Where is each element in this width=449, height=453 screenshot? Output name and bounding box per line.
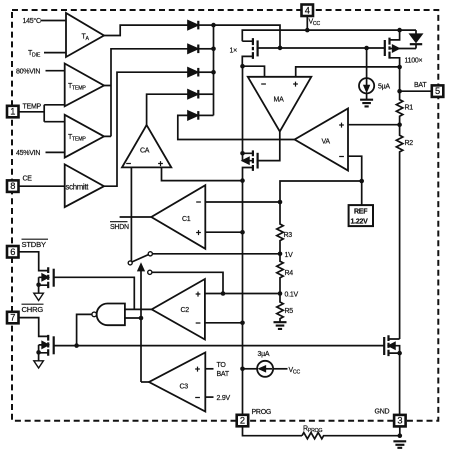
transistor Q3 small PMOS [252, 150, 254, 171]
svg-text:SHDN: SHDN [110, 224, 129, 231]
wire bus to gate node [214, 25, 281, 48]
wire 80%VIN to TTEMP1 [46, 70, 65, 72]
resistor RPROG [302, 433, 400, 439]
wire MA minus input [243, 66, 265, 77]
svg-text:schmitt: schmitt [66, 183, 90, 192]
node BAT pin [397, 89, 402, 94]
wire REF node to R3 top [280, 181, 362, 202]
wire SHDN [120, 216, 152, 218]
gnd triangle at Q5 [34, 361, 44, 368]
wire C3 output riser with arrow [140, 270, 142, 383]
switch S2 [148, 270, 152, 274]
comparator schmitt [65, 164, 104, 207]
wire Q1 drain down to Q3 [242, 66, 244, 161]
svg-text:1: 1 [10, 107, 15, 117]
svg-text:−: − [126, 159, 131, 169]
diode D3 [188, 68, 198, 77]
svg-text:+: + [195, 364, 200, 374]
node bus-D3 [211, 70, 216, 75]
NAND gate [97, 304, 125, 326]
node gate-5uA [364, 46, 369, 51]
amplifier CA [122, 125, 171, 167]
svg-text:BAT: BAT [217, 371, 230, 378]
transistor Q4 NMOS STDBY [47, 267, 49, 288]
wire 45%VIN to TTEMP2 [46, 151, 65, 153]
svg-text:−: − [261, 79, 266, 89]
node C2 minus [240, 321, 245, 326]
wire C2 minus input [205, 322, 243, 324]
wire C3 plus input [205, 368, 213, 370]
svg-text:5: 5 [435, 86, 440, 96]
svg-text:R2: R2 [405, 140, 414, 147]
amp input signs [126, 79, 344, 403]
node VCC-Q2 [397, 28, 402, 33]
gnd triangle at Q4 [34, 293, 44, 300]
wire C2 output to NAND input A [125, 308, 152, 310]
svg-text:R5: R5 [285, 308, 294, 315]
svg-text:C2: C2 [181, 307, 190, 314]
svg-text:−: − [195, 393, 200, 403]
node C3 riser NAND B [139, 316, 144, 321]
wire C1 minus input [205, 201, 280, 203]
svg-text:7: 7 [10, 313, 15, 323]
wire TEMP pin branch [19, 105, 65, 122]
svg-text:80%VIN: 80%VIN [16, 69, 40, 76]
wire MA plus input to BAT node [296, 67, 400, 77]
node bus-D2 [211, 47, 216, 52]
svg-text:2: 2 [240, 416, 245, 426]
svg-text:PROG: PROG [252, 409, 272, 416]
comparator C1 [151, 185, 205, 249]
pin 8 CE [7, 180, 19, 192]
svg-text:1V: 1V [285, 252, 294, 259]
pin 4 VCC [302, 5, 314, 17]
amplifier MA [248, 77, 311, 132]
svg-text:3: 3 [397, 416, 402, 426]
svg-text:REF: REF [354, 209, 368, 216]
wire TDIE to TA [44, 52, 66, 54]
comparator TTEMP2 [65, 115, 104, 158]
NAND input B [125, 317, 141, 319]
resistor R5 [277, 294, 283, 322]
diode D2 [188, 45, 198, 54]
body diode of Q2 [415, 30, 417, 34]
current source 3uA [243, 368, 258, 370]
wire schmitt output to diode D3 [104, 72, 188, 186]
node C1 plus [240, 230, 245, 235]
ground at R5 [274, 322, 287, 329]
svg-text:6: 6 [10, 247, 15, 257]
wire TA output to diode D1 [104, 25, 188, 35]
gate line Q1-Q2 [258, 47, 385, 49]
svg-text:1.22V: 1.22V [351, 219, 369, 226]
resistor R2 [396, 125, 402, 339]
amplifier VA [295, 109, 348, 171]
node CA plus tap [240, 178, 245, 183]
ground at pin3 [393, 441, 406, 448]
diode D5 [188, 111, 198, 120]
wire C1 plus input [205, 231, 242, 233]
node Q1 drain MA minus [240, 64, 245, 69]
comparator TTEMP1 [65, 64, 104, 107]
svg-text:5µA: 5µA [378, 84, 390, 91]
svg-text:GND: GND [375, 409, 390, 416]
svg-text:+: + [339, 120, 344, 130]
pin 5 BAT [432, 85, 444, 97]
node VCC-pin4 [305, 28, 310, 33]
current source 5uA [366, 48, 368, 78]
wire C3 minus input [205, 396, 213, 398]
svg-text:TEMP: TEMP [23, 104, 42, 111]
wire VA minus to REF node [348, 156, 362, 205]
node NAND out Q5 gate [74, 343, 79, 348]
svg-text:−: − [195, 318, 200, 328]
svg-text:−: − [339, 152, 344, 162]
svg-text:R1: R1 [405, 105, 414, 112]
ground at 5uA [360, 100, 373, 107]
node Q6 source [397, 351, 402, 356]
wire MA output to Q3 gate [258, 132, 280, 161]
wire CA output to diode D4 [147, 94, 188, 125]
VCC rail [242, 30, 416, 41]
pin 2 PROG [237, 415, 249, 427]
svg-text:CE: CE [23, 176, 33, 183]
wire CE pin to schmitt [19, 185, 65, 187]
wire CA plus input to PROG node [162, 167, 243, 180]
svg-text:0.1V: 0.1V [285, 292, 299, 299]
node S2-C2plus [221, 291, 226, 296]
node 0.1V [278, 291, 283, 296]
node 3uA PROG [240, 367, 245, 372]
svg-text:4: 4 [305, 5, 310, 15]
comparator C2 [152, 279, 205, 340]
svg-text:R3: R3 [284, 232, 293, 239]
node GND RPROG [398, 433, 403, 438]
wire VA output to diode D5 [178, 115, 295, 139]
node C1 minus R3 [278, 200, 283, 205]
svg-text:−: − [196, 197, 201, 207]
svg-text:MA: MA [274, 97, 285, 104]
transistor Q1 1x PMOS [252, 38, 254, 59]
svg-text:1×: 1× [230, 48, 238, 55]
svg-text:TO: TO [217, 362, 227, 369]
wire C3 output [141, 381, 149, 383]
svg-text:VA: VA [322, 139, 331, 146]
diode D1 [188, 21, 198, 30]
node PROG vertical [242, 181, 244, 415]
wire 0.1V node to C2 plus [205, 293, 280, 295]
pin 1 TEMP [7, 106, 19, 118]
transistor Q5 NMOS CHRG [47, 335, 49, 356]
node Q4 source [36, 283, 41, 288]
svg-text:+: + [293, 79, 298, 89]
node R1-R2 [397, 122, 402, 127]
transistor Q2 1100x PMOS [388, 38, 390, 59]
comparator C3 [149, 353, 205, 412]
svg-text:3µA: 3µA [258, 351, 270, 358]
gate line Q5 to Q6 [54, 345, 384, 347]
node BAT-MAplus [397, 65, 402, 70]
wire VA plus input to R1R2 [348, 124, 400, 126]
svg-text:+: + [195, 289, 200, 299]
svg-text:2.9V: 2.9V [217, 395, 231, 402]
svg-text:CHRG: CHRG [22, 305, 44, 314]
node Q5 source [36, 350, 41, 355]
pin 7 CHRG [7, 312, 19, 324]
svg-text:1100×: 1100× [405, 58, 423, 65]
svg-text:C3: C3 [180, 384, 189, 391]
svg-text:45%VIN: 45%VIN [16, 150, 40, 157]
wire C2 output branch to STDBY NMOS gate [54, 277, 134, 309]
svg-text:+: + [158, 159, 163, 169]
wire BAT node down to pin5 [400, 67, 431, 91]
NAND output wire [77, 314, 92, 345]
wire TTEMP outputs to diode D2 [104, 49, 188, 137]
pin 6 STDBY [7, 246, 19, 258]
node 1V [278, 252, 283, 257]
resistor R1 [396, 91, 402, 125]
wire Q6 source to pin3 [399, 353, 401, 414]
svg-text:145°C: 145°C [23, 17, 41, 25]
switch S1 [148, 252, 152, 256]
node gate-diodes [278, 46, 283, 51]
wire CA minus input down to switch S1 [130, 167, 132, 261]
diode D4 [188, 90, 198, 99]
pin6 wire [19, 252, 48, 271]
svg-text:BAT: BAT [414, 82, 427, 89]
svg-text:R4: R4 [285, 270, 294, 277]
transistor Q6 big NMOS [387, 335, 389, 356]
resistor R4 [277, 254, 283, 294]
node bus-D1 [211, 23, 216, 28]
pin7 wire [19, 318, 48, 337]
node VA minus REF [359, 179, 364, 184]
pin 3 GND [394, 415, 406, 427]
box REF 1.22V [349, 205, 373, 226]
svg-text:STDBY: STDBY [22, 240, 46, 249]
wire pin2 to RPROG [243, 427, 303, 436]
svg-text:8: 8 [10, 181, 15, 191]
wire 1V node to switch S1 [153, 253, 280, 255]
diode cathode bus [213, 25, 215, 115]
comparator TA [66, 13, 104, 57]
svg-text:+: + [196, 228, 201, 238]
node Q3 top [240, 151, 245, 156]
wire pin3 to ground [399, 427, 401, 436]
wire 145C to TA [41, 20, 67, 22]
wire pin4 to rail [306, 17, 308, 30]
resistor R3 [277, 202, 283, 254]
svg-text:C1: C1 [182, 216, 191, 223]
svg-text:CA: CA [140, 148, 150, 155]
